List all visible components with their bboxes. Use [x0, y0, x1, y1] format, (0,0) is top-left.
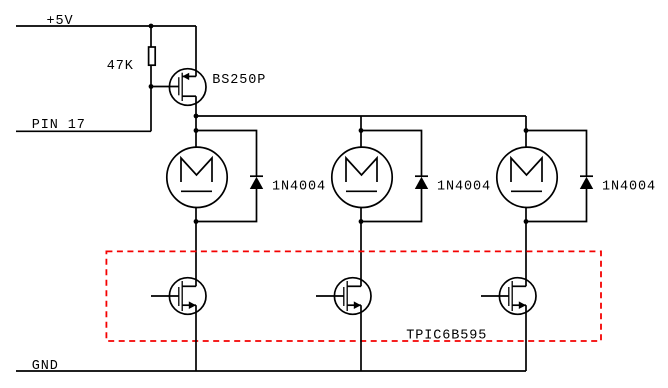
svg-text:47K: 47K [107, 59, 134, 74]
wire branch 3 riser [525, 116, 527, 147]
node +5V rail / resistor junction [149, 24, 154, 29]
wire GND rail [16, 370, 526, 372]
transistor Q4 n-channel MOSFET (driver 3) [481, 278, 536, 315]
motor M3 [497, 147, 557, 207]
wire motor supply bus [196, 115, 526, 117]
transistor Q2 n-channel MOSFET (driver 1) [151, 278, 206, 315]
wire branch 2 riser [360, 116, 362, 147]
node motor 2 / diode 2 bottom junction [359, 219, 364, 224]
TPIC6B595 dashed boundary box [106, 251, 601, 341]
wire resistor bottom lead to gate node [150, 65, 152, 131]
wire diode 1 bottom branch [196, 189, 257, 222]
wire +5V to Q1 source [195, 26, 197, 76]
svg-text:GND: GND [32, 359, 59, 374]
svg-text:BS250P: BS250P [212, 73, 266, 88]
wire PIN 17 rail [16, 130, 151, 132]
wire diode 1 top branch [196, 131, 257, 177]
resistor 47K body [149, 47, 156, 65]
transistor Q3 n-channel MOSFET (driver 2) [316, 278, 371, 315]
node diode 1 tee [194, 128, 199, 133]
svg-text:1N4004: 1N4004 [602, 179, 656, 194]
motor M2 [332, 147, 392, 207]
wire diode 3 top branch [526, 131, 587, 177]
wire diode 2 top branch [361, 131, 422, 177]
wire Q1 drain down to motor 1 [195, 96, 197, 147]
wire motor 3 bottom lead [525, 208, 527, 287]
svg-text:TPIC6B595: TPIC6B595 [406, 329, 487, 344]
node diode 3 tee [524, 128, 529, 133]
svg-text:1N4004: 1N4004 [437, 179, 491, 194]
wire motor 1 bottom lead [195, 208, 197, 287]
wire Q4 source to ground [525, 305, 527, 371]
wire resistor top lead [150, 26, 152, 47]
wire diode 2 bottom branch [361, 189, 422, 222]
svg-text:1N4004: 1N4004 [272, 179, 326, 194]
node gate junction [149, 84, 154, 89]
wire Q2 source to ground [195, 305, 197, 371]
node motor 3 / diode 3 bottom junction [524, 219, 529, 224]
diode D1 1N4004 [250, 176, 263, 189]
node motor 1 / diode 1 bottom junction [194, 219, 199, 224]
node drain bus junction [194, 114, 199, 119]
svg-text:+5V: +5V [47, 14, 74, 29]
node diode 2 tee [359, 128, 364, 133]
transistor Q1 BS250P p-channel MOSFET [169, 69, 206, 106]
wire motor 2 bottom lead [360, 208, 362, 287]
diode D2 1N4004 [415, 176, 428, 189]
wire Q3 source to ground [360, 305, 362, 371]
svg-text:PIN 17: PIN 17 [32, 118, 86, 133]
wire +5V rail [16, 25, 196, 27]
wire gate lead to Q1 [151, 86, 179, 88]
wire diode 3 bottom branch [526, 189, 587, 222]
motor M1 [167, 147, 227, 207]
diode D3 1N4004 [580, 176, 593, 189]
